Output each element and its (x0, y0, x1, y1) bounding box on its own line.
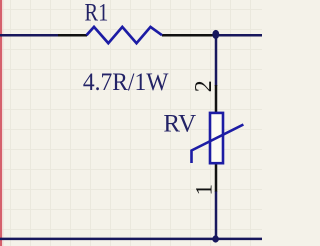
svg-text:1: 1 (192, 184, 217, 196)
svg-text:R1: R1 (85, 0, 109, 26)
svg-text:2: 2 (191, 80, 217, 92)
svg-text:RV: RV (163, 110, 196, 137)
svg-text:4.7R/1W: 4.7R/1W (83, 68, 169, 96)
